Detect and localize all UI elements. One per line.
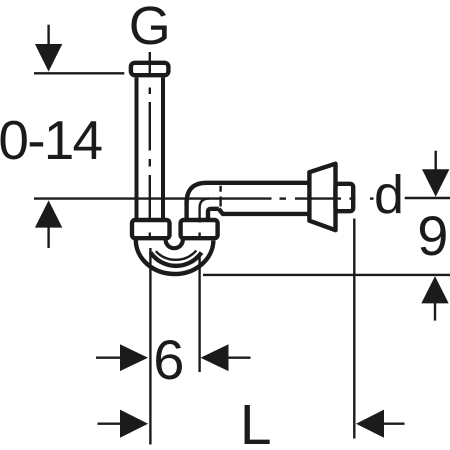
arrow up (0-14 lower) <box>35 200 62 227</box>
inlet pipe collar nut <box>131 63 169 75</box>
svg-text:0-14: 0-14 <box>0 109 101 171</box>
outlet stub <box>336 184 354 211</box>
trap bowl inner thin arc <box>156 251 197 260</box>
arrow left (L) <box>356 410 384 438</box>
arrow right (L) <box>120 410 148 438</box>
trap bowl outer arc <box>136 240 214 275</box>
dip tube cap (U-ring below nuts) <box>166 236 183 248</box>
elbow inner corner and tube bottom edge <box>208 209 219 218</box>
extension line below outlet (6-dim right line) <box>198 254 200 372</box>
arrow up (9) <box>421 276 448 303</box>
centerline dash across rosette <box>295 197 341 199</box>
trap inlet nut (left) <box>132 220 170 238</box>
inlet pipe left wall <box>135 77 139 218</box>
trap bowl middle arc <box>151 253 202 266</box>
dimension line d <box>405 197 450 199</box>
trap outlet nut (right) <box>181 220 218 238</box>
arrow down (d) <box>422 169 449 197</box>
axis centerline dot <box>280 197 287 199</box>
horizontal axis line (0-14 lower dim + pipe centerline solid part) <box>34 197 272 199</box>
inlet pipe centerline dashes <box>149 52 151 240</box>
centerline dot right <box>370 197 374 199</box>
arrow down (0-14 upper) <box>35 44 62 72</box>
hidden edge dashes (tube end inside sleeve) <box>219 186 221 207</box>
dimension line top (0-14 upper) <box>34 72 124 74</box>
centerline dash across stub end <box>350 197 356 199</box>
svg-text:d: d <box>374 165 404 225</box>
inlet pipe right wall <box>161 77 165 218</box>
axis branch dash in nut <box>198 233 200 239</box>
svg-text:6: 6 <box>153 328 184 391</box>
extension line below trap (6-dim left line) <box>149 248 151 445</box>
arrow right (6) <box>120 344 148 371</box>
axis branch curving down at elbow <box>200 199 209 223</box>
dimension line 9 (trap bottom) <box>203 274 450 276</box>
svg-text:L: L <box>240 393 272 450</box>
extension line below stub (L-dim right line) <box>353 219 355 439</box>
down tube left wall <box>184 201 188 218</box>
step to sleeve bottom edge <box>219 209 308 214</box>
elbow outer curve and horizontal pipe top edge <box>187 183 308 203</box>
svg-text:9: 9 <box>417 204 448 267</box>
svg-text:G: G <box>129 0 171 56</box>
arrow left (6) <box>201 344 229 371</box>
wall rosette (trapezoid) <box>309 164 335 231</box>
